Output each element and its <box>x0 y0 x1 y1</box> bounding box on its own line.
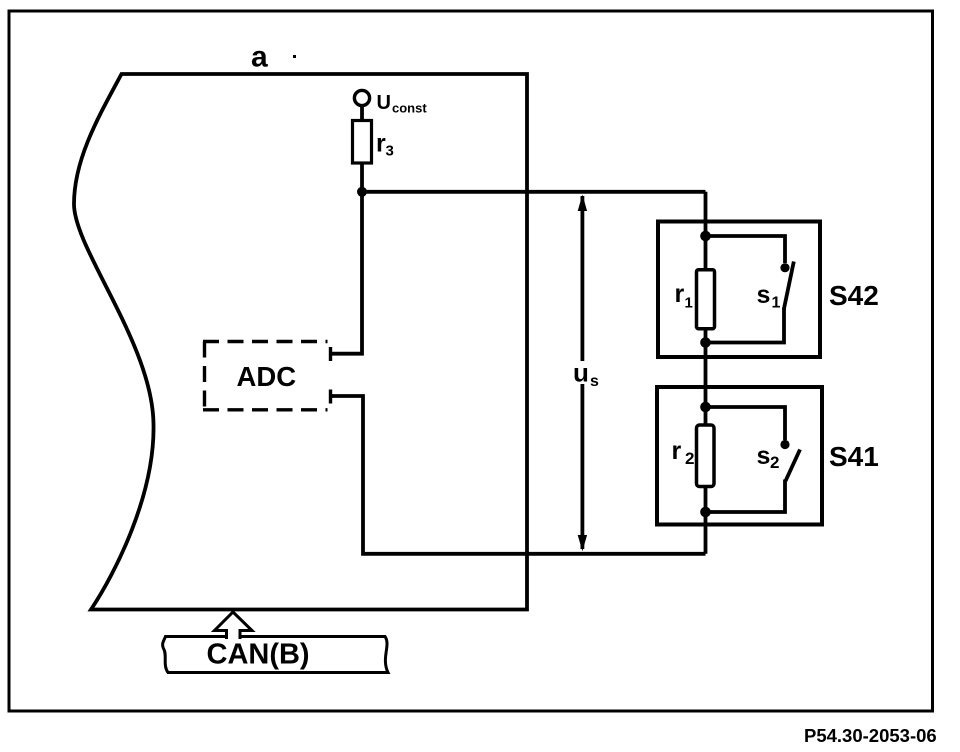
switch s1 blade <box>784 262 794 310</box>
node r1 top <box>700 231 711 242</box>
label S42 <box>829 280 879 311</box>
part number P54.30-2053-06 <box>804 725 937 746</box>
CAN bus arrow <box>215 612 253 639</box>
label a <box>251 41 268 74</box>
svg-text:1: 1 <box>685 295 693 312</box>
svg-text:1: 1 <box>772 295 781 312</box>
svg-text:a: a <box>251 41 268 74</box>
label U_const <box>377 92 428 116</box>
switch s2 wiring lower <box>706 480 786 513</box>
resistor r2 <box>697 425 715 487</box>
svg-text:r: r <box>672 437 682 465</box>
wire r3 to node <box>360 163 364 192</box>
svg-text:U: U <box>377 92 391 114</box>
node r1 bottom <box>700 337 711 348</box>
svg-text:ADC: ADC <box>237 361 297 392</box>
label r3 <box>376 130 394 160</box>
wire node down to ADC pin <box>329 192 362 354</box>
resistor r1 <box>697 270 715 329</box>
svg-text:r: r <box>675 280 685 308</box>
svg-text:3: 3 <box>386 143 394 160</box>
svg-text:2: 2 <box>685 449 694 468</box>
label S41 <box>829 441 879 472</box>
node r2 top <box>700 402 711 413</box>
S41 box <box>657 387 822 525</box>
switch s1 wiring lower <box>706 308 785 343</box>
node junction <box>357 187 367 197</box>
speck dot <box>293 55 296 58</box>
switch s1 contact <box>780 263 789 272</box>
S42 box <box>658 222 820 358</box>
svg-text:s: s <box>757 442 771 470</box>
terminal U_const <box>354 90 369 105</box>
svg-text:u: u <box>573 358 589 388</box>
switch s2 blade <box>786 450 801 482</box>
CAN(B) banner <box>163 637 388 673</box>
label r1 <box>675 280 693 312</box>
svg-text:2: 2 <box>770 453 779 472</box>
ADC label <box>237 361 297 392</box>
svg-text:CAN(B): CAN(B) <box>207 639 310 671</box>
label s2 <box>757 442 780 472</box>
label u_s <box>573 358 599 391</box>
svg-text:const: const <box>392 101 427 116</box>
u_s measurement arrow lower <box>578 384 587 551</box>
svg-text:P54.30-2053-06: P54.30-2053-06 <box>804 725 937 746</box>
svg-text:s: s <box>590 373 599 390</box>
label r2 <box>672 437 695 468</box>
ADC pin tick top <box>329 347 332 361</box>
svg-text:s: s <box>757 281 771 309</box>
sensor chain vertical wire <box>704 192 708 554</box>
ADC box <box>203 342 328 411</box>
wire terminal to r3 <box>360 106 364 122</box>
wire node to sensor chain <box>362 190 706 194</box>
svg-text:S41: S41 <box>829 441 879 472</box>
switch s2 wiring upper <box>706 407 786 440</box>
switch s2 contact <box>780 440 789 449</box>
wire ADC lower pin to ground rail <box>329 396 706 554</box>
ADC pin tick bottom <box>329 390 332 404</box>
resistor r3 <box>353 121 372 164</box>
svg-text:S42: S42 <box>829 280 879 311</box>
control unit block a outline <box>74 74 527 610</box>
label s1 <box>757 281 781 312</box>
u_s measurement arrow upper <box>578 195 587 362</box>
node r2 bottom <box>700 507 711 518</box>
switch s1 wiring upper <box>706 236 786 263</box>
svg-text:r: r <box>376 130 386 158</box>
label CAN(B) <box>207 639 310 671</box>
